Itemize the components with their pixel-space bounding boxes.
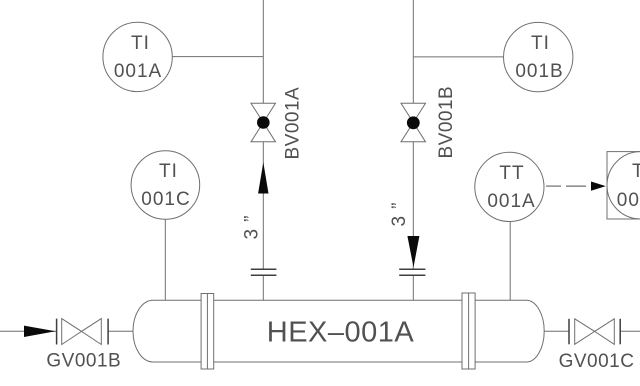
svg-text:GV001B: GV001B: [46, 350, 121, 371]
svg-text:3”: 3”: [241, 209, 262, 240]
svg-text:3”: 3”: [389, 196, 410, 227]
svg-text:BV001A: BV001A: [283, 87, 304, 160]
svg-text:001B: 001B: [515, 61, 563, 82]
svg-text:HEX–001A: HEX–001A: [267, 317, 415, 349]
svg-text:TT: TT: [499, 163, 524, 184]
svg-text:GV001C: GV001C: [559, 351, 635, 372]
svg-text:TI: TI: [131, 33, 150, 54]
svg-text:001D: 001D: [617, 190, 640, 211]
svg-text:001A: 001A: [487, 191, 535, 212]
svg-text:TI: TI: [531, 33, 550, 54]
svg-text:TI: TI: [159, 161, 178, 182]
svg-text:001A: 001A: [114, 61, 162, 82]
svg-text:001C: 001C: [141, 189, 190, 210]
svg-text:BV001B: BV001B: [436, 86, 457, 159]
svg-text:TI: TI: [632, 161, 640, 182]
